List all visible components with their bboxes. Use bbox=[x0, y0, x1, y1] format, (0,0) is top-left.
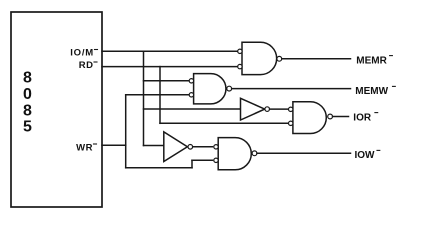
nand gate G3 (IOR) bbox=[289, 102, 333, 134]
wire WR horizontal bbox=[102, 144, 126, 146]
svg-text:RD: RD bbox=[79, 60, 94, 71]
inverter U4 (IOW path) bbox=[164, 132, 193, 162]
svg-text:8: 8 bbox=[23, 70, 32, 87]
overbar IOW bbox=[377, 149, 380, 151]
wire MEMR output bbox=[282, 58, 351, 60]
overbar MEMW bbox=[393, 85, 396, 87]
wire RD to G3 bottom input bbox=[160, 122, 289, 124]
wire RD tap vertical bbox=[159, 67, 161, 124]
pin label IO/M bbox=[70, 48, 94, 59]
inverter U3 (IOR path) bbox=[241, 98, 270, 120]
svg-text:WR: WR bbox=[76, 143, 93, 154]
svg-text:MEMR: MEMR bbox=[356, 55, 387, 66]
wire RD horizontal bbox=[102, 66, 238, 68]
overbar MEMR bbox=[390, 55, 393, 57]
overbar IO/M bbox=[95, 49, 98, 51]
net label MEMW bbox=[355, 86, 388, 97]
wire WR tap vertical bbox=[125, 95, 127, 168]
pin label RD bbox=[79, 60, 94, 71]
wire IO/M to G2 top input bbox=[144, 80, 190, 82]
wire IOW output bbox=[257, 152, 351, 154]
wire IO/M to inverter U4 input bbox=[144, 145, 164, 147]
svg-text:8: 8 bbox=[23, 103, 32, 120]
overbar IOR bbox=[375, 112, 378, 114]
wire MEMW output bbox=[232, 88, 351, 90]
nand gate G4 (IOW) bbox=[214, 138, 257, 170]
wire IO/M to inverter U3 input bbox=[144, 108, 241, 110]
svg-text:MEMW: MEMW bbox=[355, 86, 388, 97]
wire WR zigzag horizontal low bbox=[126, 167, 192, 169]
svg-text:0: 0 bbox=[23, 86, 32, 103]
svg-text:IOR: IOR bbox=[353, 112, 372, 123]
wire IOR output bbox=[333, 116, 349, 118]
net label MEMR bbox=[356, 55, 387, 66]
8085 block bbox=[11, 12, 102, 207]
wire WR zigzag vertical bbox=[191, 160, 193, 168]
svg-text:5: 5 bbox=[23, 119, 32, 136]
wire IO/M horizontal bbox=[102, 50, 238, 52]
svg-text:IOW: IOW bbox=[355, 150, 376, 161]
net label IOW bbox=[355, 150, 376, 161]
net label IOR bbox=[353, 112, 372, 123]
wire WR to G4 bottom input bbox=[192, 159, 213, 161]
wire IO/M tap vertical bbox=[143, 51, 145, 145]
wire U3 output to G3 bbox=[270, 108, 288, 110]
nand gate G1 (MEMR) bbox=[238, 42, 282, 74]
nand gate G2 (MEMW) bbox=[189, 74, 231, 104]
overbar RD bbox=[94, 61, 97, 63]
overbar WR bbox=[94, 143, 97, 145]
wire WR to G2 bottom input bbox=[126, 94, 190, 96]
pin label WR bbox=[76, 143, 93, 154]
svg-text:IO/M: IO/M bbox=[70, 48, 94, 59]
wire U4 output to G4 bbox=[193, 146, 213, 148]
label 8085 bbox=[23, 70, 32, 136]
